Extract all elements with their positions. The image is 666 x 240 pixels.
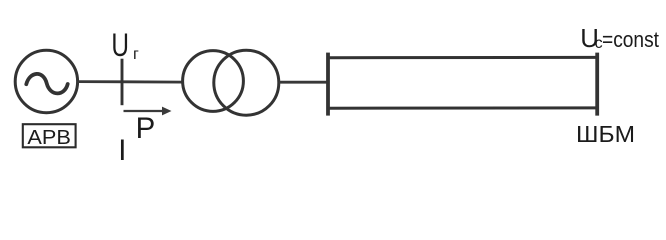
transformer T1 secondary winding	[214, 50, 279, 115]
svg-text:г: г	[133, 46, 139, 63]
svg-text:I: I	[118, 134, 126, 167]
svg-text:P: P	[136, 112, 156, 145]
svg-text:=const: =const	[602, 27, 659, 52]
bus bar left	[326, 53, 330, 116]
wire transformer to line	[279, 81, 328, 84]
regulator box АРВ	[23, 124, 76, 149]
label Uc=const	[580, 25, 659, 53]
svg-text:АРВ: АРВ	[27, 126, 71, 149]
label Uг	[111, 27, 139, 63]
transformer T1 primary winding	[183, 51, 244, 112]
transmission line top conductor	[328, 56, 597, 59]
generator sine symbol	[26, 74, 67, 93]
generator G circle	[15, 50, 77, 112]
node tick Uг	[121, 59, 124, 105]
transmission line bottom conductor	[328, 106, 597, 109]
wire generator to transformer	[78, 80, 185, 83]
svg-text:ШБМ: ШБМ	[576, 121, 635, 147]
arrow P	[124, 107, 172, 116]
svg-text:U: U	[111, 27, 129, 63]
bus bar right (infinite bus)	[595, 53, 599, 116]
